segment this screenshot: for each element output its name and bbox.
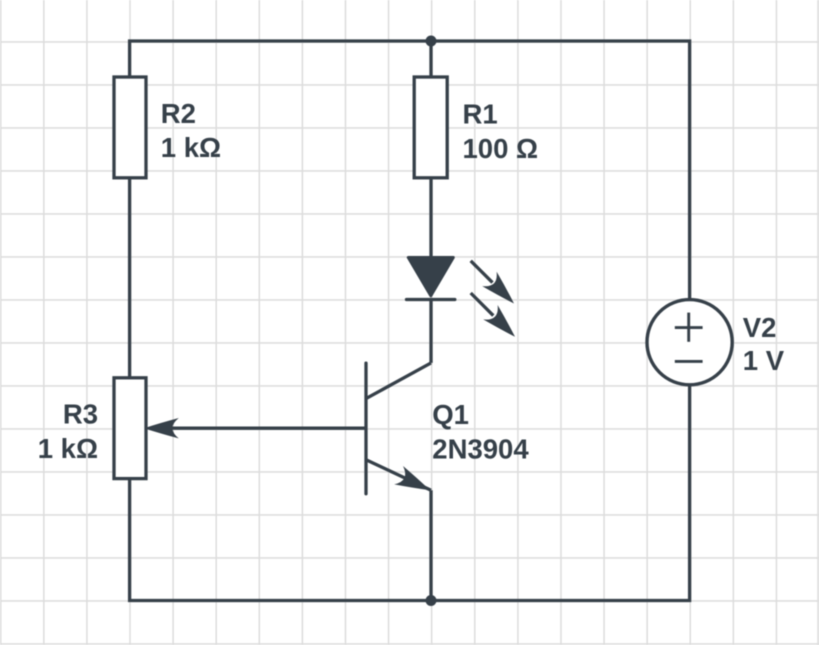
transistor Q1 collector lead [366, 363, 431, 399]
wire middle branch: top junction to R1 [429, 41, 432, 77]
transistor Q1 emitter lead with arrowhead [366, 460, 434, 500]
V2 plus sign [675, 313, 703, 342]
svg-text:V2: V2 [743, 312, 777, 343]
svg-text:1 kΩ: 1 kΩ [161, 132, 221, 163]
svg-text:1 V: 1 V [743, 345, 785, 376]
potentiometer R3 body [114, 378, 146, 479]
svg-text:1 kΩ: 1 kΩ [38, 433, 98, 464]
label R2 value "R2 / 1 kΩ" [161, 98, 221, 163]
wire Q1 base to R3 wiper [170, 427, 366, 430]
transistor Q1 base bar [364, 363, 367, 494]
LED light emission arrow 1 [471, 261, 522, 311]
resistor R2 [114, 77, 146, 178]
node bottom junction dot [426, 595, 437, 606]
svg-text:100 Ω: 100 Ω [463, 133, 539, 164]
label V2 value "V2 / 1 V" [743, 312, 785, 376]
R3 wiper arrowhead pointing into potentiometer [144, 418, 179, 438]
V2 minus sign [675, 360, 703, 363]
LED light emission arrow 2 [471, 293, 523, 344]
wire Q1 emitter to bottom junction [429, 490, 432, 600]
wire top rail: V+ from left branch to right branch [130, 41, 690, 300]
svg-text:2N3904: 2N3904 [432, 434, 529, 465]
label R3 value "R3 / 1 kΩ" [38, 398, 98, 464]
svg-text:R2: R2 [161, 98, 196, 129]
svg-text:R3: R3 [63, 398, 98, 429]
voltage source V2 circle [647, 300, 732, 385]
wire left branch middle segment (R2 bottom to R3 top) [128, 178, 131, 378]
wire LED cathode to Q1 collector [429, 300, 432, 363]
LED D1 cathode bar [407, 298, 455, 301]
label Q1 value "Q1 / 2N3904" [432, 399, 529, 464]
wire middle branch: R1 to LED anode [429, 178, 432, 259]
label R1 value "R1 / 100 Ω" [463, 99, 539, 164]
svg-text:Q1: Q1 [432, 399, 469, 430]
node top junction dot [426, 36, 437, 47]
LED D1 anode triangle [408, 258, 453, 296]
svg-text:R1: R1 [463, 99, 498, 130]
resistor R1 [414, 77, 447, 178]
wire bottom rail: from right branch to left branch [130, 385, 690, 601]
